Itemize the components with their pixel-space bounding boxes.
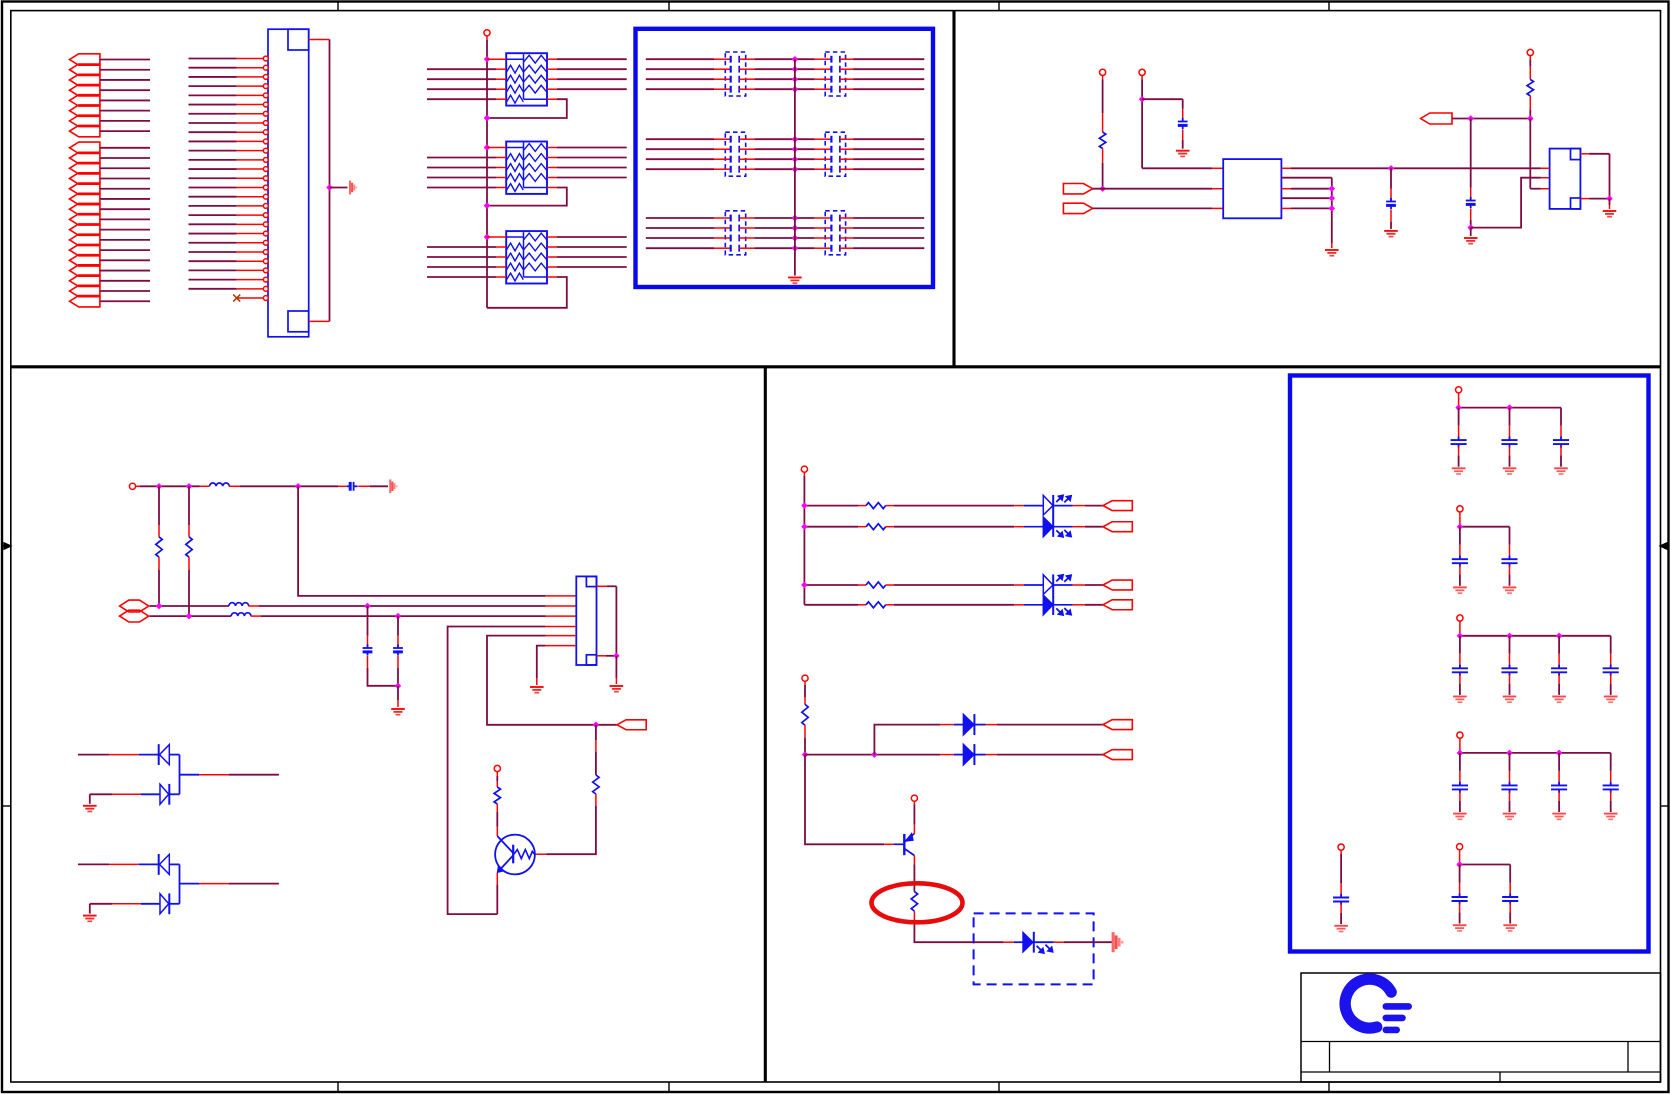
power terminal VT1	[484, 30, 490, 36]
capacitor VB4.C1	[1459, 753, 1461, 771]
zone tick right	[1661, 805, 1670, 807]
wire C5 bottom	[367, 656, 369, 668]
wire J1 pin 10	[189, 140, 237, 142]
wire lineB	[150, 615, 232, 617]
terminal VT5	[129, 483, 135, 489]
ground VB5.G2	[1503, 925, 1517, 931]
section divider vertical top	[952, 11, 955, 367]
port P17	[70, 224, 100, 235]
junction bus y=169.2	[793, 167, 798, 172]
junction A1	[157, 604, 162, 609]
wire to C4	[338, 485, 347, 487]
ground GND12	[83, 806, 97, 812]
wire C4 to gnd	[358, 485, 370, 487]
junction RN3 input	[485, 235, 490, 240]
wire J1 pin 7	[189, 113, 237, 115]
ground VB5.G1	[1453, 925, 1467, 931]
junction port E	[594, 722, 599, 727]
junction C3/J2	[1468, 225, 1473, 230]
ground VB4.G4	[1604, 814, 1618, 820]
terminal VB6	[1338, 844, 1344, 850]
pin circle 24	[263, 268, 268, 273]
wire Q2 emitter	[913, 856, 915, 865]
wire+resistor LED row 3	[804, 584, 858, 586]
wire drop R3	[158, 486, 160, 525]
ground GND3	[1176, 151, 1190, 157]
wire VT8 down	[804, 685, 806, 697]
terminal VT2	[1100, 69, 1106, 75]
wire C1 down	[1182, 130, 1184, 141]
resistor network RN2	[506, 142, 547, 194]
inductor L2	[229, 603, 249, 606]
wire VB5 bus	[1459, 854, 1461, 865]
wire ESD1 gnd	[89, 794, 91, 804]
wire D4 link	[169, 903, 179, 905]
transistor Q1	[495, 835, 535, 875]
wire/cap row R y=149.2	[795, 148, 815, 150]
wire/cap row R y=218	[795, 217, 815, 219]
port PF2	[1103, 522, 1132, 532]
wire J2 shield top	[1580, 153, 1589, 155]
wire J2 shield bottom	[1580, 198, 1589, 200]
wire U1 out5	[1281, 207, 1291, 209]
wire RN1 in pin3	[427, 78, 496, 80]
wire J1 pin 26	[189, 288, 237, 290]
port PA	[1063, 184, 1092, 194]
wire J1 pin 6	[189, 104, 237, 106]
capacitor VB5.C2	[1509, 865, 1511, 883]
pin circle 3	[263, 75, 268, 80]
ground GND1 rotated	[350, 181, 356, 195]
wire C3 gnd	[1470, 228, 1472, 236]
wire LED1 out	[1034, 941, 1054, 943]
ground VB2.G2	[1503, 587, 1517, 593]
wire RN3 out pin3	[547, 256, 557, 258]
resistor R7	[802, 704, 808, 725]
junction VB3.3	[1557, 633, 1562, 638]
wire J3 shield top	[597, 585, 608, 587]
resistor network RN3	[506, 231, 547, 283]
junction bus y=69.2	[793, 67, 798, 72]
wire/cap row R y=248.2	[795, 247, 815, 249]
wire D1 anode	[78, 754, 109, 756]
junction bus y=139.2	[793, 137, 798, 142]
inductor L1	[210, 483, 230, 486]
wire U1 out2	[1281, 177, 1331, 179]
wire J1 pin 11	[189, 150, 237, 152]
connector J3 body	[576, 576, 596, 665]
transistor Q2	[903, 834, 905, 855]
cap array ground bus	[794, 59, 796, 275]
wire RN3 in pin1	[487, 236, 506, 238]
junction VB4.1	[1458, 751, 1463, 756]
wire VT7 bus	[803, 476, 805, 605]
wire J1 right rail	[329, 40, 331, 322]
wire D5 out	[974, 754, 985, 756]
wire J1 pin 9	[189, 131, 237, 133]
junction t1	[157, 484, 162, 489]
junction VB3.1	[1458, 633, 1463, 638]
ground VB1.G3	[1554, 468, 1568, 474]
capacitor VB4.C4	[1610, 753, 1612, 771]
pin circle 8	[263, 121, 268, 126]
junction bus y=228	[793, 226, 798, 231]
port P15	[70, 203, 100, 214]
ground GND13	[83, 916, 97, 922]
LED pair DL1	[1052, 495, 1054, 537]
pin circle 21	[263, 240, 268, 245]
wire lineA	[150, 605, 229, 607]
ground GND9	[391, 709, 405, 715]
wire RN1 loop	[547, 98, 557, 100]
wire RN2 in pin4	[427, 177, 496, 179]
cap bank box	[1290, 376, 1649, 952]
junction bus y=218	[793, 216, 798, 221]
wire RN1 out pin3	[547, 78, 557, 80]
pin circle 9	[263, 130, 268, 135]
wire VT2 down	[1102, 80, 1104, 114]
wire VB1 bus	[1458, 397, 1460, 408]
capacitor C4	[349, 482, 352, 491]
wire RN2 out pin3	[547, 167, 557, 169]
wire/cap row L y=79.2	[646, 78, 714, 80]
ground GND14 rotated	[1113, 932, 1122, 952]
wire RN2 out pin1	[547, 147, 557, 149]
wire VT4 down	[1529, 60, 1531, 66]
wire RN1 out pin2	[547, 68, 557, 70]
port PD1 diamond	[120, 600, 149, 612]
wire R4 down	[188, 557, 190, 570]
bottom tick near title	[1328, 1082, 1330, 1092]
wire RN1 in pin5	[427, 98, 496, 100]
wire R1 down	[1102, 149, 1104, 163]
junction VB3.2	[1507, 633, 1512, 638]
highlight ellipse	[872, 883, 963, 922]
terminal VT9	[911, 795, 917, 801]
junction J1 rail	[327, 185, 332, 190]
pin circle 22	[263, 250, 268, 255]
wire C6 bottom	[397, 656, 399, 668]
junction RN1 input	[485, 57, 490, 62]
wire J1 pin 24	[189, 269, 237, 271]
port PF1	[1103, 501, 1132, 511]
junction B2	[396, 614, 401, 619]
capacitor C1	[1178, 121, 1188, 123]
wire RN3 in pin4	[427, 266, 496, 268]
junction VT3/C1	[1140, 97, 1145, 102]
wire LED1 in	[974, 941, 1004, 943]
wire C3 to J2 pin2	[1471, 178, 1541, 228]
wire RN2 out pin4	[547, 177, 557, 179]
junction t2	[187, 484, 192, 489]
wire/cap row R y=139.2	[795, 138, 815, 140]
wire J1 bottom to rail	[309, 320, 330, 322]
no-connect X pin 27	[237, 297, 264, 299]
wire PB to U1	[1093, 207, 1213, 209]
wire/cap row L y=248.2	[646, 247, 714, 249]
ground VB2.G1	[1453, 587, 1467, 593]
port P3	[70, 74, 100, 85]
ground GND8 rotated	[390, 479, 396, 493]
port P20	[70, 255, 100, 266]
junction bus y=248.2	[793, 246, 798, 251]
zone tick bottom 3	[998, 1082, 1000, 1092]
port P6	[70, 105, 100, 116]
wire RN3 out pin2	[547, 246, 557, 248]
Cypress logo	[1345, 979, 1409, 1030]
junction R7 net	[803, 752, 808, 757]
wire C6 drop	[397, 616, 399, 636]
wire RN2 in pin5	[427, 187, 496, 189]
junction bus y=505.6	[802, 503, 807, 508]
junction out1/C2	[1389, 166, 1394, 171]
zone tick top 4	[1328, 2, 1330, 11]
wire J1 pin 12	[189, 159, 237, 161]
pin circle 16	[263, 194, 268, 199]
port P14	[70, 193, 100, 204]
wire/cap row R y=69.2	[795, 68, 815, 70]
ground VB6.G1	[1334, 926, 1348, 932]
pin circle 23	[263, 259, 268, 264]
wire to C1	[1142, 98, 1183, 100]
wire R8 down	[913, 911, 915, 921]
wire ESD2 gnd	[89, 904, 91, 914]
pin circle 1	[263, 56, 268, 61]
port PG1	[1103, 720, 1132, 730]
wire J1 pin 2	[189, 67, 237, 69]
resistor R3	[156, 537, 162, 557]
pin circle 27	[263, 296, 268, 301]
port PC	[1421, 113, 1452, 124]
pin circle 4	[263, 84, 268, 89]
wire J2 pin1 stub	[1541, 167, 1550, 169]
junction bus y=238	[793, 236, 798, 241]
ground GND4	[1325, 250, 1339, 256]
capacitor VB5.C1	[1459, 865, 1461, 883]
ground VB1.G2	[1503, 468, 1517, 474]
wire RN1 out pin1	[547, 58, 557, 60]
wire lineA right	[248, 605, 259, 607]
wire/cap row R y=79.2	[795, 78, 815, 80]
terminal VB3	[1457, 615, 1463, 621]
wire J3 pin4	[546, 626, 577, 628]
capacitor VB1.C3	[1560, 408, 1562, 426]
junction J3 shield	[614, 653, 619, 658]
terminal VB2	[1457, 506, 1463, 512]
terminal VB1	[1456, 387, 1462, 393]
junction R1/port	[1100, 186, 1105, 191]
wire RN1 out pin4	[547, 88, 557, 90]
optical box dashed	[974, 913, 1094, 984]
wire J1 pin 14	[189, 177, 237, 179]
pin circle 5	[263, 93, 268, 98]
wire J1 pin 19	[189, 223, 237, 225]
wire C3 drop	[1470, 119, 1472, 188]
wire J1 pin 13	[189, 168, 237, 170]
wire J1 pin 4	[189, 85, 237, 87]
junction VB2.1	[1458, 524, 1463, 529]
cap array CA2A box	[725, 132, 745, 176]
wire J3 pin5	[546, 635, 577, 637]
wire VB2 bus	[1459, 516, 1461, 527]
diode D1	[158, 744, 160, 765]
port P11	[70, 163, 100, 174]
wire D1 link	[169, 754, 179, 756]
resistor R2	[1527, 80, 1533, 96]
wire R2 down	[1529, 96, 1531, 110]
ground VB4.G3	[1552, 814, 1566, 820]
ground VB4.G2	[1503, 814, 1517, 820]
junction B1	[187, 614, 192, 619]
port P9	[70, 142, 100, 153]
port P18	[70, 234, 100, 245]
port P12	[70, 173, 100, 184]
pin circle 7	[263, 111, 268, 116]
vertical bus wire	[486, 40, 488, 308]
capacitor VB6.C1	[1340, 854, 1342, 883]
section divider horizontal	[11, 365, 1661, 368]
wire J1 pin 21	[189, 242, 237, 244]
port P24	[70, 296, 100, 307]
wire/cap row L y=169.2	[646, 168, 714, 170]
port P10	[70, 152, 100, 163]
junction VB4.3	[1557, 751, 1562, 756]
cap array CA3B box	[825, 211, 845, 255]
pin circle 14	[263, 176, 268, 181]
wire VB4 bus	[1459, 742, 1461, 753]
connector J2 body	[1550, 149, 1581, 209]
junction PC/R2	[1528, 116, 1533, 121]
wire J3 shield bot	[597, 655, 607, 657]
ground VB3.G3	[1552, 697, 1566, 703]
ground VB3.G4	[1604, 697, 1618, 703]
wire PC net	[1452, 118, 1530, 120]
pin circle 20	[263, 231, 268, 236]
zone tick top 2	[668, 2, 670, 11]
cap array CA1B box	[825, 52, 845, 96]
wire C2 drop	[1390, 168, 1392, 188]
resistor network RN1	[506, 53, 547, 105]
pin circle 6	[263, 102, 268, 107]
wire R2 to J2 pin3	[1529, 119, 1531, 189]
wire/cap row L y=238	[646, 237, 714, 239]
wire RN2 out pin2	[547, 157, 557, 159]
junction VB1.2	[1507, 405, 1512, 410]
ground VB3.G1	[1453, 697, 1467, 703]
wire J1 pin 16	[189, 196, 237, 198]
junction VB1.1	[1456, 405, 1461, 410]
section divider vertical bottom	[764, 367, 767, 1082]
port P4	[70, 84, 100, 95]
wire/cap row L y=218	[646, 217, 714, 219]
junction VB4.2	[1507, 751, 1512, 756]
junction RN2 loop	[485, 203, 490, 208]
pin circle 18	[263, 213, 268, 218]
wire/cap row R y=59.2	[795, 58, 815, 60]
wire+resistor LED row 4	[804, 604, 858, 606]
junction VB5.1	[1457, 862, 1462, 867]
zone tick bottom 2	[668, 1082, 670, 1092]
diode D6	[963, 714, 974, 734]
port PG2	[1103, 750, 1132, 760]
centre arrow left border	[2, 543, 11, 549]
capacitor VB3.C1	[1459, 636, 1461, 654]
wire lineB right	[251, 615, 261, 617]
junction bus y=526.7	[802, 524, 807, 529]
capacitor VB3.C3	[1558, 636, 1560, 654]
capacitor VB2.C2	[1509, 527, 1511, 545]
terminal VT7	[801, 466, 807, 472]
wire PA to U1	[1093, 188, 1213, 190]
capacitor VB1.C1	[1458, 408, 1460, 426]
junction bus y=89.2	[793, 87, 798, 92]
wire/cap row L y=139.2	[646, 138, 714, 140]
wire D3 link	[169, 863, 179, 865]
wire U1 out3	[1281, 188, 1291, 190]
wire ESD1 out	[180, 774, 200, 776]
junction out5	[1329, 206, 1334, 211]
terminal VT6	[494, 765, 500, 771]
wire J1 pin 22	[189, 251, 237, 253]
wire RN2 in pin1	[487, 147, 506, 149]
wire RN3 in pin2	[427, 246, 496, 248]
junction C5/C6	[396, 683, 401, 688]
terminal VB4	[1457, 732, 1463, 738]
junction A2	[365, 604, 370, 609]
port PB	[1063, 203, 1092, 213]
resistor R8	[911, 892, 917, 912]
junction bus y=59.2	[793, 57, 798, 62]
diode D5	[963, 744, 974, 764]
inductor L3	[231, 613, 251, 616]
port PD2 diamond	[120, 610, 149, 622]
junction J2 shield	[1607, 196, 1612, 201]
wire/cap row R y=238	[795, 237, 815, 239]
LED D7	[1023, 932, 1033, 952]
wire/cap row R y=89.2	[795, 88, 815, 90]
port P23	[70, 285, 100, 296]
terminal VB5	[1457, 844, 1463, 850]
junction bus y=159.2	[793, 157, 798, 162]
port P19	[70, 244, 100, 255]
wire R5 to base	[595, 794, 597, 806]
port P8	[70, 125, 100, 136]
wire J1 pin 25	[189, 279, 237, 281]
diode D3	[158, 854, 160, 875]
wire D4 anode	[90, 903, 112, 905]
ground GND2	[788, 278, 802, 284]
wire D6 line	[874, 725, 940, 755]
wire VT6 down	[496, 776, 498, 781]
zone tick top 1	[337, 2, 339, 11]
ground GND10	[530, 687, 544, 693]
wire U1 out4	[1281, 197, 1331, 199]
junction bus y=149.2	[793, 147, 798, 152]
wire drop R4	[188, 486, 190, 525]
port P5	[70, 95, 100, 106]
ground GND11	[610, 686, 624, 692]
ground VB1.G1	[1452, 468, 1466, 474]
wire J1 pin 23	[189, 260, 237, 262]
diode D4	[160, 894, 169, 914]
junction out3	[1329, 186, 1334, 191]
wire RN3 in pin3	[427, 256, 496, 258]
wire J1 pin 8	[189, 122, 237, 124]
wire Q1 emitter	[496, 873, 498, 884]
wire C3 down	[1470, 209, 1472, 221]
junction out4	[1329, 196, 1334, 201]
wire/cap row R y=169.2	[795, 168, 815, 170]
